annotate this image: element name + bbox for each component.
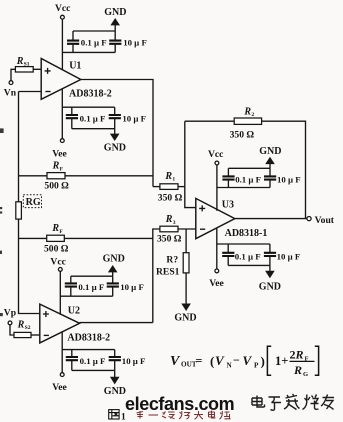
- power terminal Vee (U1): [60, 139, 64, 143]
- wire U3 Vcc decoupling bottom rail: [217, 187, 270, 189]
- svg-text:GND: GND: [104, 386, 126, 397]
- svg-text:P: P: [254, 362, 259, 370]
- resistor R? RES1: [183, 253, 189, 273]
- svg-text:500 Ω: 500 Ω: [44, 181, 69, 192]
- wire U3 Vcc decoupling top (ground) rail: [228, 167, 270, 169]
- svg-text:=: =: [196, 354, 203, 368]
- resistor R2 350 ohm: [234, 118, 261, 124]
- capacitor C8 10uF (U3 Vee decoupling): [269, 244, 271, 265]
- svg-text:GND: GND: [104, 7, 126, 18]
- wire U2 Vee decoupling top rail: [62, 349, 114, 351]
- wire Vp to Rs2: [10, 325, 14, 335]
- svg-text:0.1 µ F: 0.1 µ F: [80, 356, 106, 366]
- wire R2 right to output node: [262, 121, 306, 218]
- svg-text:GND: GND: [174, 313, 196, 324]
- wire Vcc to U3 V+ pin: [216, 165, 218, 211]
- svg-text:R: R: [51, 223, 59, 234]
- capacitor C3 0.1uF (U1 Vee decoupling): [71, 107, 73, 129]
- svg-text:Vn: Vn: [4, 87, 17, 98]
- resistor RF2 500 ohm: [47, 235, 65, 241]
- svg-text:R: R: [164, 171, 172, 182]
- wire Vee decoupling top rail: [62, 106, 114, 108]
- pin + (U1 non-inverting input): [45, 68, 51, 74]
- capacitor C10 10uF (U2 Vcc decoupling): [112, 276, 114, 296]
- pin - (U1 inverting input): [45, 91, 50, 93]
- capacitor C1 0.1uF (U1 Vcc decoupling): [72, 31, 74, 52]
- svg-text:GND: GND: [104, 143, 126, 154]
- svg-text:F: F: [59, 229, 63, 235]
- svg-text:S2: S2: [25, 325, 31, 331]
- wire Vcc to U2 V+ pin: [59, 271, 61, 314]
- svg-text:F: F: [60, 166, 64, 172]
- svg-text:V: V: [215, 353, 225, 368]
- svg-text:1+: 1+: [275, 354, 288, 368]
- svg-text:0.1 µ F: 0.1 µ F: [81, 37, 107, 47]
- svg-text:350 Ω: 350 Ω: [157, 234, 182, 245]
- capacitor C11 0.1uF (U2 Vee decoupling): [71, 350, 73, 371]
- svg-text:Vcc: Vcc: [50, 256, 66, 267]
- svg-text:3: 3: [173, 220, 176, 226]
- wire R2 left: [185, 120, 234, 122]
- svg-text:Vcc: Vcc: [55, 3, 71, 14]
- op-amp U3: [196, 198, 235, 238]
- svg-text:R: R: [295, 348, 304, 362]
- ground symbol (RES1): [181, 304, 191, 312]
- svg-text:R: R: [293, 363, 302, 377]
- output terminal Vout: [307, 217, 311, 221]
- caption 'fig 1' (CJK drawn): [109, 410, 126, 422]
- wire U1 - input to left feedback bus: [19, 91, 42, 93]
- capacitor C12 10uF (U2 Vee decoupling): [114, 350, 116, 371]
- resistor RG (gain resistor): [16, 202, 22, 219]
- capacitor C4 10uF (U1 Vee decoupling): [114, 107, 116, 129]
- svg-text:0.1 µ F: 0.1 µ F: [235, 175, 261, 185]
- ground symbol (U3 Vee decoupling): [269, 265, 271, 271]
- wire U2 Vee decoupling bottom (ground) rail: [72, 369, 115, 371]
- svg-text:R?: R?: [166, 254, 178, 265]
- svg-text:AD8318-2: AD8318-2: [67, 332, 110, 343]
- wire R3 to U3 -in: [178, 228, 196, 230]
- svg-text:Vout: Vout: [315, 215, 335, 226]
- svg-text:10 µ F: 10 µ F: [122, 356, 146, 366]
- op-amp U2: [40, 304, 80, 343]
- svg-text:elecfans.com: elecfans.com: [125, 394, 234, 414]
- power terminal Vee (U3): [215, 269, 219, 273]
- svg-text:GND: GND: [259, 282, 281, 293]
- svg-text:AD8318-1: AD8318-1: [225, 228, 268, 239]
- svg-text:R: R: [243, 106, 251, 117]
- wire node A vertical (R2 left to U3 +in): [185, 121, 196, 207]
- capacitor C9 0.1uF (U2 Vcc decoupling): [70, 276, 72, 296]
- wire Vcc decoupling bottom rail: [62, 51, 115, 53]
- op-amp U1: [41, 59, 81, 100]
- svg-text:U2: U2: [68, 305, 80, 316]
- svg-text:N: N: [227, 362, 233, 370]
- wire U2 output right: [80, 322, 153, 324]
- svg-text:R: R: [16, 56, 24, 67]
- svg-text:RG: RG: [26, 197, 41, 208]
- svg-text:500 Ω: 500 Ω: [44, 243, 69, 254]
- svg-text:V: V: [243, 353, 253, 368]
- wire RES1 to ground: [185, 273, 187, 304]
- capacitor C5 0.1uF (U3 Vcc decoupling): [227, 168, 229, 187]
- svg-text:Vee: Vee: [209, 278, 224, 289]
- wire U2 Vcc decoupling bottom rail: [60, 295, 112, 297]
- wire Vcc terminal to U1 V+ pin: [61, 19, 63, 70]
- svg-text:10 µ F: 10 µ F: [120, 282, 144, 292]
- scan speckles: [0, 128, 4, 316]
- input terminal Vp: [8, 321, 12, 325]
- ground symbol (U3 Vcc decoupling): [269, 163, 271, 168]
- svg-text:R: R: [17, 319, 25, 330]
- wire Rs2 to U2 - input: [31, 334, 40, 336]
- pin - (U3 inverting input): [200, 228, 205, 230]
- resistor R1 350 ohm: [160, 184, 178, 190]
- svg-text:Vee: Vee: [52, 382, 67, 393]
- wire Rs1 to U1 + input: [33, 68, 41, 70]
- ground symbol (U2 Vcc decoupling): [112, 272, 114, 277]
- svg-text:RES1: RES1: [156, 266, 180, 277]
- wire U2 V- pin: [61, 332, 63, 373]
- wire decoupling top (ground) rail: [73, 30, 115, 32]
- wire left feedback bus (U1 -in down to RG): [18, 92, 20, 203]
- wire U1 V- pin: [61, 88, 63, 138]
- ground symbol (U1 Vee decoupling): [114, 129, 116, 135]
- resistor R3 350 ohm: [160, 226, 178, 232]
- svg-text:S1: S1: [24, 62, 30, 68]
- watermark small CJK line 'di yi ji fang da dian lu' (drawn strokes): [137, 411, 231, 420]
- wire node B down to RES1: [185, 229, 187, 253]
- svg-text:10 µ F: 10 µ F: [277, 175, 301, 185]
- wire feedback rail 1 (U1 -in to U1 out): [19, 175, 154, 177]
- svg-text:R: R: [52, 161, 60, 172]
- capacitor C2 10uF (U1 Vcc decoupling): [114, 31, 116, 52]
- input terminal Vn: [9, 81, 13, 85]
- power terminal Vee (U2): [60, 373, 64, 377]
- svg-text:0.1 µ F: 0.1 µ F: [235, 252, 261, 262]
- wire Vee decoupling bottom (ground) rail: [72, 128, 115, 130]
- wire U2 Vcc decoupling top (ground) rail: [71, 275, 113, 277]
- wire U3 Vee decoupling bottom (ground) rail: [228, 264, 270, 266]
- svg-text:G: G: [303, 371, 308, 378]
- resistor Rs2: [14, 332, 31, 337]
- svg-text:0.1 µ F: 0.1 µ F: [78, 282, 104, 292]
- wire U3 output to Vout: [235, 218, 307, 220]
- capacitor C7 0.1uF (U3 Vee decoupling): [227, 244, 229, 265]
- svg-text:350 Ω: 350 Ω: [158, 192, 183, 203]
- svg-text:U3: U3: [222, 200, 234, 211]
- svg-text:AD8318-2: AD8318-2: [69, 88, 112, 99]
- svg-text:1: 1: [172, 177, 175, 183]
- svg-text:10 µ F: 10 µ F: [122, 114, 146, 124]
- wire feedback rail 2 (U2 +in to U2 out): [19, 237, 153, 239]
- pin + (U2 top input): [43, 311, 49, 317]
- wire U2 out bus up to R3: [153, 229, 160, 323]
- ground symbol (U1 Vcc decoupling): [114, 25, 116, 31]
- svg-text:350 Ω: 350 Ω: [230, 130, 255, 141]
- pin - (U2 bottom input): [44, 334, 49, 336]
- svg-text:R: R: [165, 214, 173, 225]
- pin + (U3 non-inverting input): [199, 205, 205, 211]
- svg-text:10 µ F: 10 µ F: [277, 252, 301, 262]
- svg-text:−: −: [233, 353, 240, 367]
- svg-text:0.1 µ F: 0.1 µ F: [80, 114, 106, 124]
- resistor RF1 500 ohm: [47, 173, 65, 179]
- label box RG: [23, 195, 41, 208]
- svg-text:Vp: Vp: [4, 307, 16, 318]
- resistor Rs1: [15, 67, 33, 72]
- svg-text:GND: GND: [259, 146, 281, 157]
- svg-text:OUT: OUT: [181, 361, 197, 369]
- svg-text:2: 2: [251, 112, 254, 118]
- wire R1 to node A: [178, 186, 185, 188]
- ground symbol (U2 Vee decoupling): [114, 370, 116, 377]
- capacitor C6 10uF (U3 Vcc decoupling): [269, 168, 271, 187]
- wire U1 output to node across top: [81, 80, 153, 187]
- wire U3 V- pin: [216, 228, 218, 269]
- wire U1 out node to R1: [153, 186, 160, 188]
- svg-text:): ): [261, 354, 265, 369]
- svg-text:Vcc: Vcc: [208, 149, 224, 160]
- svg-text:10 µ F: 10 µ F: [123, 37, 147, 47]
- svg-text:GND: GND: [103, 254, 125, 265]
- svg-text:(: (: [210, 354, 214, 369]
- svg-text:Vee: Vee: [52, 148, 67, 159]
- watermark CJK 'dian zi fa shao you' (drawn strokes): [252, 394, 334, 410]
- svg-text:U1: U1: [69, 60, 81, 71]
- wire Vn to Rs1: [11, 69, 15, 80]
- formula Vout = (Vn - Vp)[1 + 2RF/RG]: [170, 346, 319, 378]
- wire left feedback bus (RG down to U2 +in): [19, 219, 40, 314]
- wire U3 Vee decoupling top rail: [217, 243, 270, 245]
